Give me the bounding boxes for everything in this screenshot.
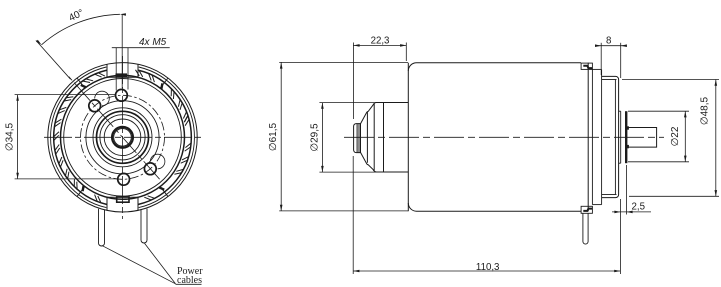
side view: rear shaft xyxy=(627,128,656,148)
svg-text:∅34,5: ∅34,5 xyxy=(5,122,16,151)
front view: rim notch lower-right xyxy=(160,187,168,197)
side view: rear shoulder section xyxy=(592,69,601,204)
front view: top slot (filled) xyxy=(116,73,128,77)
front view: shaft bore (bold ring) xyxy=(112,127,133,148)
dimension 40deg: angled extension line xyxy=(36,40,71,79)
front view: M5 hole lower-right xyxy=(144,154,165,175)
side view: housing body xyxy=(408,63,588,212)
front view: inner face circle xyxy=(64,79,182,197)
front view: rim notch lower-left xyxy=(77,187,85,197)
dimension 8: dimension line xyxy=(597,45,626,47)
dimension dia22: extension lines xyxy=(628,111,689,162)
dimension 8: extension lines xyxy=(601,43,621,78)
front view: rim notch upper-right xyxy=(160,78,168,88)
svg-text:∅48,5: ∅48,5 xyxy=(700,96,711,125)
side view: rear cap inner lines xyxy=(602,80,617,195)
front view: shaft bore inner xyxy=(114,129,132,147)
dimension dia61,5: extension lines xyxy=(279,62,408,211)
svg-text:∅29,5: ∅29,5 xyxy=(310,123,321,152)
dimension 22,3: dimension line xyxy=(353,44,406,46)
power cable right (front view) xyxy=(141,209,147,243)
front view: step circle xyxy=(93,108,152,167)
dimension 110,3: dimension line xyxy=(353,270,620,272)
front view: mounting boss circle xyxy=(86,101,159,174)
front view: hub inner circle xyxy=(100,115,145,160)
power cables label underline xyxy=(176,283,202,285)
dimension 2,5: dimension line xyxy=(612,211,651,213)
side view: rear ring A xyxy=(591,69,593,204)
dimension dia48,5: extension lines xyxy=(622,80,719,197)
callout 4x M5: extension lines to hole xyxy=(116,48,128,91)
front view: M5 hole upper-left xyxy=(89,91,110,112)
front view: M5 hole bottom xyxy=(118,173,130,185)
side view: rear bearing boss xyxy=(619,111,621,163)
front view: housing rim circle (bold) xyxy=(54,70,192,204)
dimension 40deg: vertical extension line xyxy=(121,14,123,88)
front view: diagonal centerline through threaded holes xyxy=(68,76,159,179)
dimension dia34,5: bottom extension line xyxy=(15,178,119,180)
side view: front hub profile xyxy=(354,103,409,173)
dimension 110,3: extension lines xyxy=(353,156,620,274)
front view: face plate circle (bold) xyxy=(61,75,185,199)
svg-text:∅22: ∅22 xyxy=(670,126,681,146)
dimension 22,3: extension lines xyxy=(353,43,406,120)
front view: rim notch dark marks xyxy=(81,83,164,191)
front view: second rim circle xyxy=(51,67,195,208)
side view: power cable (side) xyxy=(583,213,588,244)
power cable left (front view) xyxy=(99,209,105,246)
front view: bearing circle xyxy=(104,119,141,156)
front view: bolt circle (centerline) xyxy=(81,95,165,179)
svg-text:2,5: 2,5 xyxy=(632,202,645,213)
svg-text:40°: 40° xyxy=(67,7,85,24)
dimension dia48,5: dimension line xyxy=(715,80,717,197)
front view: wave spring segments xyxy=(54,70,191,203)
svg-text:4x M5: 4x M5 xyxy=(139,37,167,48)
dimension dia34,5: dimension line xyxy=(17,95,19,179)
side view: top clip xyxy=(581,63,592,69)
side view: rear end cap xyxy=(602,76,619,197)
dimension dia61,5: dimension line xyxy=(280,62,282,211)
side view: rear boss face plate (bold) xyxy=(625,111,627,163)
dimension dia29,5: extension lines xyxy=(319,103,376,173)
front view: rim notch upper-left xyxy=(77,78,85,88)
front view: outer flange circle xyxy=(48,63,197,212)
dimension dia34,5: top extension line xyxy=(15,94,116,96)
svg-text:22,3: 22,3 xyxy=(371,35,390,46)
front view: M5 hole top xyxy=(116,89,128,101)
side view: centerline xyxy=(344,136,664,138)
front view: bottom slot xyxy=(117,197,129,202)
front view: bottom key tab xyxy=(107,197,138,210)
callout 4x M5: leader line xyxy=(112,47,170,49)
svg-text:8: 8 xyxy=(606,36,611,47)
dimension 2,5: extension lines xyxy=(626,165,628,215)
side view: shaft chamfer marks xyxy=(626,126,629,148)
svg-text:110,3: 110,3 xyxy=(476,262,500,273)
front view: vertical centerline xyxy=(122,56,124,219)
front view: horizontal centerline xyxy=(44,136,201,138)
front view: top key tab xyxy=(107,64,138,77)
side view: housing front face xyxy=(407,63,409,212)
dimension 40deg: arc xyxy=(42,14,120,45)
front view: hub circle (bold) xyxy=(97,111,149,163)
dimension dia29,5: dimension line xyxy=(321,103,323,173)
power cables leader lines xyxy=(103,243,176,284)
dimension dia22: dimension line xyxy=(684,111,686,162)
side view: bottom clip xyxy=(581,206,592,213)
svg-text:∅61,5: ∅61,5 xyxy=(268,122,279,151)
